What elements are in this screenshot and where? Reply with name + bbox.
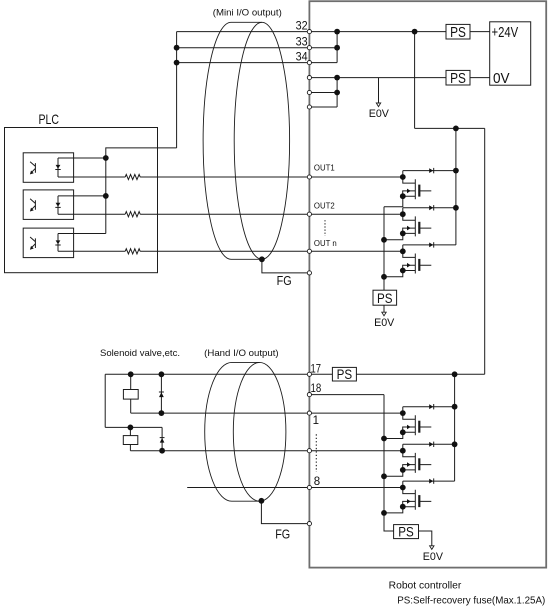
wire tie bus of 0V pins — [336, 78, 338, 107]
node E0V arrow top — [376, 103, 380, 107]
svg-text:32: 32 — [296, 21, 308, 33]
node junction PLC common U2 — [103, 193, 109, 199]
node junction diode bus D2 — [453, 205, 459, 211]
node junction lower E0V bus Q5 — [381, 473, 387, 479]
node junction PLC common U1 — [103, 155, 109, 161]
wire OUTn row left — [58, 250, 125, 252]
diode D6 (flyback pin8) — [403, 478, 455, 483]
pin number labels — [296, 21, 322, 488]
node Q4 source — [400, 429, 406, 435]
terminal 0V pin 1 — [307, 76, 311, 80]
cable shield (Mini I/O output) cylinder body — [203, 22, 262, 259]
phototransistor of U2 — [30, 199, 35, 210]
node junction lower diode bus top — [452, 371, 458, 377]
svg-text:E0V: E0V — [374, 317, 395, 329]
wire FG1 lead from shield — [262, 259, 310, 273]
wire OUT2 row left — [58, 213, 125, 215]
node Q1 source — [400, 193, 406, 199]
wire pin17 row left — [105, 373, 332, 375]
diode D2 (flyback OUT2) — [403, 205, 456, 210]
diode D5 (flyback mid) — [403, 442, 455, 447]
node junction pin32/tie — [334, 29, 340, 35]
wire U1 LED anode to common bus — [58, 157, 106, 159]
transistor Q5 (output MOSFET mid) — [403, 444, 432, 473]
node Q3 source — [400, 268, 406, 274]
terminal pin 32 — [307, 30, 311, 34]
fuse PS5 (lower output common) — [394, 525, 419, 539]
wire OUT1 row right — [140, 176, 403, 178]
terminal OUT2 — [307, 212, 311, 216]
node junction lower E0V bus Q6 — [381, 510, 387, 516]
node junction diode bus top — [453, 125, 459, 131]
node Q5 source — [400, 467, 406, 473]
node junction diode bus D4 — [452, 404, 458, 410]
node junction +24V drop — [412, 29, 418, 35]
wire pin32 row — [177, 31, 446, 33]
resistor R2 — [125, 212, 140, 217]
diode D7 (across L1) — [159, 374, 164, 413]
wire OUT2 row right — [140, 213, 403, 215]
terminal pin 8 — [307, 485, 311, 489]
wire solenoid supply drop left — [104, 374, 106, 427]
node shield FG1 — [259, 256, 265, 262]
node Q6 drain — [400, 485, 406, 491]
svg-text:(Hand I/O output): (Hand I/O output) — [204, 348, 279, 358]
wire OUTn row right — [140, 250, 403, 252]
node junction E0V bus Q2 — [381, 237, 387, 243]
optocoupler U1 box — [23, 153, 73, 183]
wire mid output row — [130, 450, 402, 452]
wire pin18 to lower E0V bus — [309, 394, 384, 396]
wire pin34 row — [177, 62, 338, 64]
wire Q5 source to E0V bus — [384, 470, 403, 476]
node Q2 source — [400, 231, 406, 237]
svg-text:0V: 0V — [493, 70, 510, 87]
terminal 0V pin 2 — [307, 90, 311, 94]
node junction pin33/tie — [334, 45, 340, 51]
wire PS2 to 0V — [470, 77, 490, 79]
wire tie bus left of pins 32-34 — [176, 32, 178, 148]
wire Q1 source to E0V bus — [384, 196, 403, 207]
svg-text:OUT n: OUT n — [314, 239, 337, 248]
wire 0V row — [309, 77, 446, 79]
cable shield (Hand I/O output) right cap ellipse — [233, 362, 286, 501]
svg-text:FG: FG — [275, 527, 290, 541]
phototransistor of U1 — [30, 162, 35, 173]
wire upper E0V source bus — [383, 207, 385, 290]
terminal FG1 — [307, 271, 311, 275]
diode D8 (across L2) — [160, 427, 165, 450]
node junction lower E0V bus Q4 — [381, 436, 387, 442]
node junction diode bus D1 — [453, 168, 459, 174]
wire L1 bottom lead — [130, 399, 132, 413]
fuse PS1 — [446, 24, 470, 39]
LED of U2 — [57, 196, 59, 214]
svg-text:Robot controller: Robot controller — [389, 580, 462, 591]
wire solenoid 2 top — [105, 426, 162, 428]
node junction D8 bottom — [159, 448, 165, 454]
diode D3 (flyback OUTn) — [403, 242, 456, 247]
wire pin8 row — [187, 487, 403, 489]
svg-text:8: 8 — [314, 476, 320, 488]
terminal pin mid — [307, 449, 311, 453]
node junction 0V pin2/tie — [334, 90, 340, 96]
PLC box — [5, 128, 158, 273]
node junction D7 top — [159, 371, 165, 377]
svg-text:18: 18 — [311, 383, 322, 395]
node Q5 drain — [400, 448, 406, 454]
svg-text:33: 33 — [296, 37, 308, 49]
node Q4 drain — [400, 410, 406, 416]
robot controller box — [309, 1, 546, 567]
wire pin33 row — [177, 47, 338, 49]
svg-text:FG: FG — [277, 274, 292, 288]
wire jog to PLC common bus — [106, 148, 177, 234]
node Q6 source — [400, 504, 406, 510]
svg-text:(Mini I/O output): (Mini I/O output) — [213, 7, 282, 17]
wire U2 LED anode to common bus — [58, 195, 106, 197]
wire upper flyback diode bus — [455, 128, 457, 245]
node junction E0V bus Q3 — [381, 274, 387, 280]
wire Q6 source to E0V bus — [384, 507, 403, 513]
LED of U3 — [57, 234, 59, 252]
svg-text:Solenoid valve,etc.: Solenoid valve,etc. — [100, 348, 180, 358]
svg-text:PS: PS — [450, 71, 466, 87]
diode D4 (flyback pin1) — [403, 404, 455, 409]
terminal pin 17 — [307, 372, 311, 376]
node junction L1 top — [128, 371, 134, 377]
terminal circles — [307, 30, 311, 526]
svg-text:1: 1 — [313, 415, 319, 427]
svg-text:E0V: E0V — [369, 108, 390, 120]
terminal pin 1 — [307, 411, 311, 415]
svg-text:PS:Self-recovery fuse(Max.1.25: PS:Self-recovery fuse(Max.1.25A) — [397, 596, 545, 607]
transistor Q2 (output MOSFET OUT2) — [403, 208, 432, 237]
transistor Q6 (output MOSFET pin8) — [403, 481, 432, 510]
wire tie bus right of pins 32-34 — [336, 32, 338, 63]
solenoid coil L1 drop — [130, 374, 132, 389]
svg-text:OUT2: OUT2 — [314, 201, 335, 210]
wire Q2 source to E0V bus — [384, 233, 403, 239]
wire FG2 lead from shield — [261, 501, 309, 524]
svg-text:OUT1: OUT1 — [314, 164, 335, 173]
svg-text:PS: PS — [377, 290, 393, 306]
wire U3 LED anode to common bus — [58, 233, 106, 235]
wire PS1 to +24V — [470, 31, 490, 33]
wire PS5 to E0V — [419, 531, 432, 546]
svg-text:17: 17 — [311, 363, 322, 375]
wire Q3 source to E0V bus — [384, 271, 403, 277]
svg-text:+24V: +24V — [492, 24, 519, 41]
fuse PS2 — [446, 70, 470, 85]
transistor Q3 (output MOSFET OUTn) — [403, 245, 432, 274]
wire 0V pin stub 3 — [309, 106, 337, 108]
resistor R1 — [125, 174, 140, 179]
dotted continuation pin1..pin8 — [315, 434, 317, 472]
power supply box +24V/0V — [490, 22, 531, 85]
transistor Q1 (output MOSFET OUT1) — [403, 171, 432, 200]
output name labels — [314, 164, 337, 249]
svg-text:PLC: PLC — [38, 111, 59, 127]
wire E0V tap at 0V row — [378, 78, 380, 104]
node junction diode bus D5 — [452, 441, 458, 447]
optocoupler U3 box — [23, 228, 73, 258]
solenoid coil L1 — [123, 390, 138, 400]
node junction 0V/tie — [334, 75, 340, 81]
svg-text:34: 34 — [296, 52, 309, 64]
node junction D7 bottom — [159, 410, 165, 416]
fuse PS3 (upper output common) — [373, 290, 397, 305]
wire Q4 source to E0V bus — [384, 432, 403, 438]
wire lower E0V source bus — [384, 395, 394, 531]
svg-text:PS: PS — [337, 367, 353, 382]
phototransistor of U3 — [30, 237, 35, 248]
optocoupler U2 box — [23, 190, 73, 220]
node junction L2 top — [127, 425, 133, 431]
terminal OUTn — [307, 249, 311, 253]
svg-text:PS: PS — [398, 523, 414, 539]
solenoid coil L2 — [123, 436, 138, 445]
node junction left tie pin34 — [174, 60, 180, 66]
node Q3 drain — [400, 248, 406, 254]
wire pin1 row — [131, 412, 403, 414]
solenoid coil L2 drop — [129, 427, 131, 435]
svg-text:E0V: E0V — [423, 551, 444, 563]
svg-text:PS: PS — [450, 25, 466, 41]
wire lower flyback diode bus — [454, 374, 456, 481]
wire pin17 row right — [356, 373, 484, 375]
fuse PS4 (pin17) — [332, 367, 356, 381]
transistor Q4 (output MOSFET pin1) — [403, 407, 432, 436]
terminal FG2 — [307, 522, 311, 526]
node E0V arrow mid — [382, 312, 386, 316]
wire 0V pin stub 2 — [309, 92, 337, 94]
terminal OUT1 — [307, 175, 311, 179]
wire L2 bottom lead — [129, 445, 131, 451]
wire +24V drop from pin32 row — [415, 32, 485, 375]
terminal pin 18 — [307, 393, 311, 397]
wire PS3 to E0V — [383, 305, 385, 312]
LED of U1 — [57, 158, 59, 177]
terminal pin 34 — [307, 61, 311, 65]
node Q2 drain — [400, 211, 406, 217]
dotted continuation OUT2..OUTn — [324, 220, 326, 236]
node shield FG2 — [259, 498, 265, 504]
terminal pin 33 — [307, 46, 311, 50]
diode D1 (flyback OUT1) — [403, 168, 456, 173]
wire OUT1 row left — [58, 176, 125, 178]
resistor R3 — [125, 249, 140, 254]
node junction left tie pin33 — [174, 45, 180, 51]
cable shield (Mini I/O output) right cap ellipse — [234, 22, 289, 259]
terminal 0V pin 3 — [307, 105, 311, 109]
node E0V arrow bottom — [430, 546, 434, 550]
cable shield (Hand I/O output) cylinder body — [205, 362, 260, 501]
node Q1 drain — [400, 174, 406, 180]
